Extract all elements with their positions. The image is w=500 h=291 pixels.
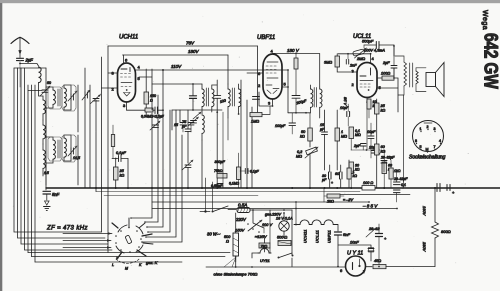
bus 110V <box>136 69 289 71</box>
svg-text:0,5A: 0,5A <box>238 203 247 208</box>
bus line 3 <box>104 195 258 197</box>
svg-text:2MΩ: 2MΩ <box>356 57 365 61</box>
svg-text:18 V 0,1A: 18 V 0,1A <box>276 217 293 221</box>
svg-text:150V: 150V <box>235 228 245 233</box>
top hook of left buses <box>14 67 46 69</box>
svg-text:500: 500 <box>224 235 231 239</box>
vertical wires mid2 <box>240 80 242 188</box>
svg-text:kΩ: kΩ <box>381 150 386 154</box>
svg-text:3MΩ: 3MΩ <box>324 61 332 65</box>
svg-text:78V: 78V <box>186 40 195 45</box>
svg-text:2µF: 2µF <box>382 61 390 65</box>
svg-text:UCH11: UCH11 <box>303 229 308 243</box>
svg-text:5: 5 <box>420 145 422 149</box>
UY11 row wire <box>366 266 373 268</box>
caps stack <box>190 96 197 99</box>
switch feed arrows <box>63 233 112 235</box>
power section wires <box>203 202 205 212</box>
junction dots chassis <box>95 187 436 189</box>
resistor 78ohm <box>259 243 270 248</box>
svg-text:100Ω: 100Ω <box>381 72 390 76</box>
antenna coil L1 <box>39 67 42 83</box>
wire UBF11 pin5 <box>282 86 288 88</box>
svg-text:500pF: 500pF <box>362 39 374 44</box>
svg-text:642 GW: 642 GW <box>480 33 500 89</box>
resistor 2M horizontal <box>250 113 262 117</box>
tube UBF11 <box>263 54 282 99</box>
svg-text:95 V: 95 V <box>343 97 348 106</box>
bus 78V <box>108 45 258 47</box>
bus line 202 <box>152 201 369 203</box>
svg-text:110 V: 110 V <box>262 222 272 227</box>
capacitor pair <box>155 107 157 114</box>
svg-text:M: M <box>125 267 128 271</box>
wire det line <box>288 112 310 114</box>
svg-text:75kΩ: 75kΩ <box>214 169 223 173</box>
resistor 100ohm chassis <box>362 186 375 191</box>
top border bar <box>0 0 500 3</box>
svg-text:7: 7 <box>434 145 436 149</box>
svg-text:1kΩ: 1kΩ <box>394 169 401 173</box>
svg-text:1: 1 <box>341 130 343 134</box>
svg-text:28–32µF: 28–32µF <box>380 156 395 160</box>
trimmer cap 2 <box>71 148 73 154</box>
svg-text:M: M <box>426 148 429 152</box>
svg-text:100pF: 100pF <box>275 124 286 128</box>
svg-text:110V: 110V <box>171 64 182 69</box>
long wire right 187 <box>403 95 405 188</box>
mains risers <box>206 178 213 212</box>
svg-text:UCL11: UCL11 <box>315 230 320 243</box>
svg-text:60: 60 <box>335 172 339 176</box>
wire to antenna coil <box>20 64 39 67</box>
resistor 150ohm <box>144 92 149 104</box>
oscillator coil <box>202 115 204 133</box>
svg-text:3: 3 <box>434 127 436 131</box>
trimmer column mid <box>85 92 87 98</box>
bus -85V <box>152 208 397 210</box>
svg-text:0,04MΩ+2,5µF: 0,04MΩ+2,5µF <box>141 115 165 119</box>
cap 5nF heater <box>337 225 339 231</box>
volume pot 0.2M <box>306 147 318 155</box>
bottom long wires <box>28 252 230 254</box>
coil 2a <box>53 140 55 159</box>
wire node line <box>338 53 371 55</box>
svg-text:2kΩ: 2kΩ <box>326 200 334 204</box>
resistor 0,1M det <box>237 167 241 180</box>
trimmer tone <box>193 112 201 119</box>
UY11 frame <box>338 245 371 267</box>
trimmer on x96 <box>93 99 99 101</box>
capacitor left of UBF11 <box>253 97 260 100</box>
svg-text:gez. K: gez. K <box>146 260 158 265</box>
IF transformer 2 <box>311 89 313 107</box>
svg-text:100 Ω: 100 Ω <box>363 181 373 185</box>
wire y150 <box>351 149 380 151</box>
junction <box>45 107 47 109</box>
coil column left row3 <box>43 150 45 168</box>
resistor 800 zigzag <box>434 188 436 222</box>
coil 1b <box>64 88 66 107</box>
svg-text:1MΩ: 1MΩ <box>251 120 259 124</box>
wire UBF11 pin6 <box>247 72 263 74</box>
svg-text:78Ω: 78Ω <box>261 245 268 249</box>
mains switch <box>212 211 214 213</box>
mains terminals <box>204 210 206 212</box>
resistor 1k right <box>389 168 393 179</box>
mid vertical wires <box>131 69 152 218</box>
svg-text:2µF: 2µF <box>25 58 34 63</box>
capacitor 5nF left <box>43 191 51 194</box>
resistor 1M vert <box>335 128 340 141</box>
band filter unit 1 frame <box>46 85 78 132</box>
svg-text:10µF: 10µF <box>367 130 376 134</box>
caps on long line <box>437 184 440 192</box>
svg-text:Ω: Ω <box>150 99 153 103</box>
svg-text:UBF11: UBF11 <box>257 35 275 41</box>
socket diagram <box>413 121 444 152</box>
svg-text:500 Ω: 500 Ω <box>277 236 287 240</box>
svg-text:220V: 220V <box>235 217 247 222</box>
caps bottom mid <box>217 184 223 187</box>
svg-text:160V: 160V <box>422 206 427 216</box>
trimmer low <box>185 165 191 167</box>
coil 2b <box>64 138 66 157</box>
caps at 396 <box>394 182 401 185</box>
tone frame line <box>172 109 222 111</box>
right column resistors <box>375 103 380 114</box>
resistor 30k <box>349 162 354 174</box>
IF transformer 1 right pair <box>228 89 230 107</box>
pot 2M <box>353 49 365 56</box>
wire UCH11 pin2 <box>102 87 118 89</box>
wire <box>45 68 47 190</box>
trimmer cap 1 <box>71 94 73 100</box>
bottom switch <box>279 253 292 258</box>
left bus verticals <box>14 68 102 232</box>
svg-text:kΩ: kΩ <box>353 174 358 178</box>
svg-text:180 V: 180 V <box>287 48 300 53</box>
rotary switch <box>118 225 127 232</box>
wire vertical x96 <box>95 100 97 192</box>
core bars 2 <box>58 140 60 158</box>
svg-text:L: L <box>112 263 114 267</box>
svg-text:kΩ: kΩ <box>300 135 305 139</box>
svg-text:kΩ: kΩ <box>120 174 125 178</box>
tube UCL11 <box>357 63 377 98</box>
svg-text:50: 50 <box>47 81 51 85</box>
svg-text:230V: 230V <box>422 241 427 252</box>
bus line 2 <box>96 191 360 193</box>
antenna <box>11 37 29 43</box>
capacitor 100 IF1 <box>214 96 221 99</box>
UCL11 cathode line <box>366 98 368 151</box>
coil column left row2 <box>43 125 45 139</box>
svg-text:0,1µF: 0,1µF <box>250 170 260 174</box>
svg-text:Wega: Wega <box>481 10 488 30</box>
svg-text:kΩ: kΩ <box>355 168 360 172</box>
left frame verticals <box>107 46 109 253</box>
svg-text:0,1MΩ: 0,1MΩ <box>229 182 240 186</box>
svg-text:Ω: Ω <box>226 240 229 244</box>
svg-text:800Ω: 800Ω <box>441 229 451 234</box>
svg-text:+: + <box>331 181 333 185</box>
resistor 50k vert <box>308 128 313 141</box>
resistor cathode UCL11 <box>367 99 371 109</box>
filter frame 4 chamfered <box>62 135 76 162</box>
power bottom line <box>206 266 346 268</box>
filter frame 2 chamfered <box>62 85 76 111</box>
svg-text:ohne Skalenlampe 706Ω: ohne Skalenlampe 706Ω <box>214 272 258 277</box>
svg-text:Sockelschaltung: Sockelschaltung <box>409 155 446 161</box>
tube UCH11 <box>118 63 136 102</box>
svg-text:5nF: 5nF <box>343 232 350 237</box>
svg-text:180V: 180V <box>188 49 200 54</box>
svg-text:45Ω: 45Ω <box>374 259 381 263</box>
svg-text:150: 150 <box>150 94 156 98</box>
svg-text:10µF: 10µF <box>340 106 349 110</box>
bus line 194 right <box>330 194 410 196</box>
svg-text:ZF = 473 kHz: ZF = 473 kHz <box>46 226 88 232</box>
svg-text:380µF: 380µF <box>215 160 226 164</box>
svg-text:UY11: UY11 <box>260 258 270 263</box>
svg-text:4: 4 <box>439 139 441 143</box>
resistor 2k + -2V <box>327 194 340 198</box>
svg-text:100V 4,3mA: 100V 4,3mA <box>364 49 385 53</box>
transformer wires <box>395 56 404 95</box>
bus 180V <box>123 54 229 56</box>
output transformer <box>404 62 407 86</box>
chassis bus bold <box>46 187 500 189</box>
svg-text:8: 8 <box>415 139 417 143</box>
UY11 heater hump <box>258 249 271 254</box>
svg-text:1,5: 1,5 <box>44 171 49 175</box>
rotation arc <box>116 258 140 263</box>
svg-text:0,1µF: 0,1µF <box>116 151 126 155</box>
dial lamp <box>279 221 289 231</box>
ground left <box>46 194 48 200</box>
svg-text:MΩ: MΩ <box>296 155 302 159</box>
heater chain humps <box>294 220 338 225</box>
wire UCH11 pin8 <box>108 72 118 74</box>
svg-text:2µF: 2µF <box>353 144 361 148</box>
svg-text:15: 15 <box>320 123 324 127</box>
trimmer at 155,127 <box>153 125 159 127</box>
svg-text:UBF11: UBF11 <box>327 230 332 243</box>
variable cap 50pF <box>42 90 48 92</box>
svg-text:5nF: 5nF <box>52 192 60 197</box>
resistor 60k <box>382 162 387 174</box>
resistor screen UBF11 <box>294 58 298 69</box>
svg-text:25: 25 <box>380 104 386 108</box>
svg-text:≈125V: ≈125V <box>255 234 267 239</box>
resistor 25k <box>114 167 119 180</box>
left border strip <box>0 3 2 291</box>
wire UCH11 pin5 <box>139 76 152 78</box>
IF transformer 1 left pair <box>202 89 204 107</box>
svg-text:MΩ: MΩ <box>341 135 347 139</box>
coil column left row1 <box>43 100 45 114</box>
band filter unit 2 frame <box>46 135 78 185</box>
svg-text:0,2: 0,2 <box>297 150 303 154</box>
cap 100pF low <box>289 123 296 126</box>
svg-text:25: 25 <box>119 169 125 173</box>
svg-text:16,5: 16,5 <box>73 156 80 160</box>
tone network top line <box>152 83 202 85</box>
speaker <box>416 68 426 92</box>
svg-text:= –2V: = –2V <box>343 198 353 202</box>
svg-text:1: 1 <box>420 127 422 131</box>
cap 2nF <box>346 60 348 65</box>
core bars 1 <box>58 89 60 106</box>
svg-text:28–32µF: 28–32µF <box>393 177 408 181</box>
switch stubs <box>128 218 130 228</box>
coil 1a <box>53 90 55 104</box>
resistor 0.1M <box>349 127 354 139</box>
svg-text:– 8 5 V: – 8 5 V <box>362 204 378 209</box>
wire tube top <box>123 55 125 63</box>
caps right col <box>381 161 387 164</box>
cap 0,1uF det <box>245 169 248 174</box>
filter frame 3 chamfered <box>48 137 62 161</box>
svg-text:MΩ: MΩ <box>355 133 361 137</box>
svg-text:30 W∼: 30 W∼ <box>207 232 221 237</box>
filter frame 1 chamfered <box>48 87 62 109</box>
svg-text:10nF: 10nF <box>350 241 359 245</box>
svg-text:kΩ: kΩ <box>381 109 386 113</box>
svg-text:2: 2 <box>427 125 429 129</box>
capacitor 2uF antenna <box>17 58 24 60</box>
leader line <box>224 257 236 267</box>
resistor row mid <box>145 108 153 112</box>
resistor small left <box>111 135 114 147</box>
svg-text:15: 15 <box>174 123 178 127</box>
wire antenna down <box>19 61 21 87</box>
svg-text:2nF: 2nF <box>349 64 357 68</box>
trimmer IF1 <box>191 121 197 123</box>
voltage selector <box>253 212 264 228</box>
svg-text:UCH11: UCH11 <box>119 35 138 41</box>
misc verticals mid-low <box>246 188 248 202</box>
rotor contacts <box>120 230 122 232</box>
